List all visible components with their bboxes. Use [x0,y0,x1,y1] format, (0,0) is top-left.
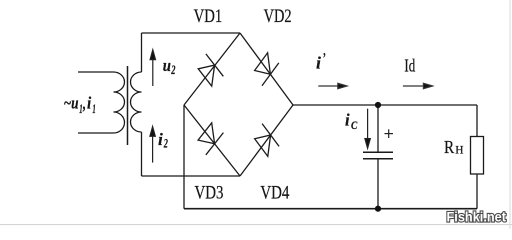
capacitor plate bottom [363,158,393,160]
bridge edge upper-left [184,33,240,105]
svg-text:2: 2 [171,62,176,77]
svg-text:VD1: VD1 [194,6,223,27]
transformer core [127,66,129,145]
wire capacitor bottom [377,159,379,209]
wire left DC vertical [183,105,185,209]
transformer primary bottom lead [78,132,114,134]
wire right vertical to resistor [476,105,478,137]
arrow iC down [365,109,370,149]
svg-text:i: i [316,53,321,72]
wire bottom rail [184,208,477,210]
arrow i' right [318,83,347,88]
transformer primary top lead [78,71,114,73]
bridge edge lower-right [240,105,293,176]
label u2 [163,56,176,77]
svg-text:H: H [455,144,463,156]
transformer primary winding [114,72,125,133]
svg-text:C: C [351,118,358,132]
svg-text:VD3: VD3 [195,183,224,204]
svg-text:i: i [87,94,92,113]
border line right [509,0,511,229]
label ~u1,i1 [64,94,96,117]
svg-text:2: 2 [163,136,168,151]
transformer secondary winding [131,72,142,132]
arrow Id right [403,83,433,88]
wire right rail [293,104,477,106]
svg-text:VD2: VD2 [264,6,292,27]
wire secondary bottom lead down [141,132,143,176]
diode VD1 [198,54,223,86]
resistor RH body [471,137,484,175]
svg-text:R: R [444,137,454,157]
svg-text:Id: Id [404,56,415,76]
wire secondary top to top rail [141,33,143,72]
svg-text:1: 1 [92,102,95,116]
label iC [345,110,358,132]
svg-text:~u: ~u [64,94,79,113]
capacitor plate top [363,151,393,153]
svg-text:Fishki.net: Fishki.net [447,210,507,225]
capacitor plus sign [385,129,394,138]
arrow i2 [150,127,155,163]
wire capacitor top [377,105,379,152]
wire resistor to bottom rail [476,174,478,209]
label i2 [158,130,168,151]
svg-text:i: i [158,130,163,149]
diode VD4 [255,124,279,157]
arrow u2 [150,50,155,86]
diode VD3 [198,123,223,155]
separator line bottom [0,224,512,226]
svg-text:VD4: VD4 [260,183,289,204]
svg-text:u: u [163,56,171,75]
wire bottom AC to bridge [142,175,241,177]
bridge edge lower-left [184,105,240,176]
bridge edge upper-right [240,33,293,105]
diode VD2 [255,53,279,86]
junction dot bottom [375,206,381,212]
svg-text:,: , [82,94,86,113]
svg-text:’: ’ [322,51,325,67]
wire top rail AC [142,32,241,34]
svg-text:i: i [345,110,350,129]
junction dot top [375,102,381,108]
